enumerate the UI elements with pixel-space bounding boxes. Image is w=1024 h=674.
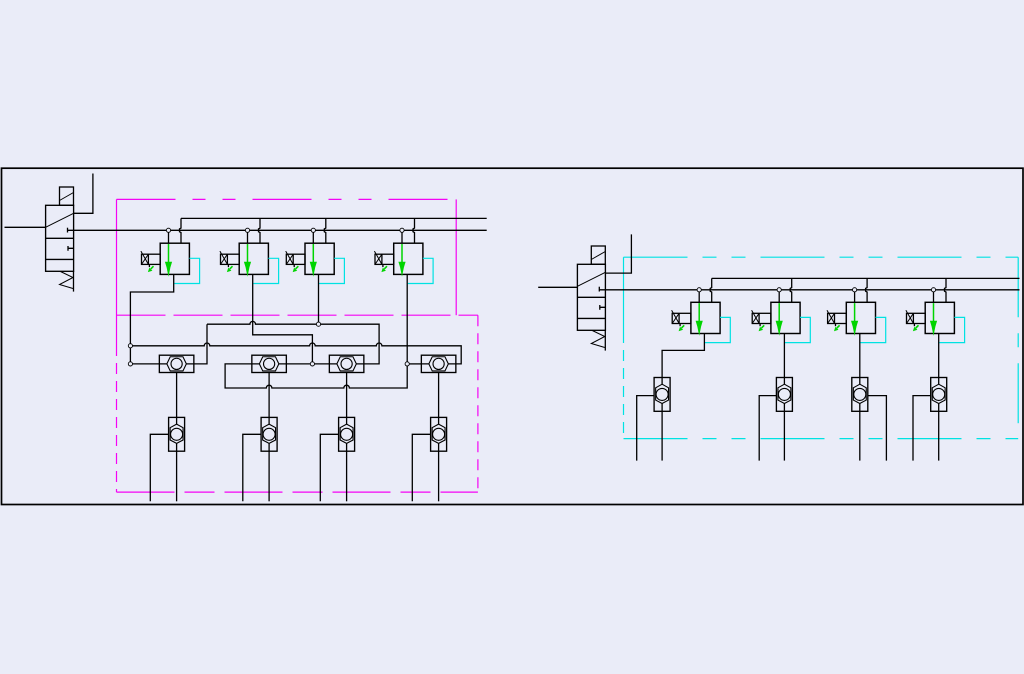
wire: check valve 3 side port down [320, 434, 338, 501]
wire: left supply bus (lower) [68, 229, 487, 231]
junction node N4 [310, 362, 314, 366]
wire: bus drop to valve 6 left port [778, 290, 780, 303]
wire: check valve 4 side port down [412, 434, 430, 501]
main valve DCV2 [577, 246, 605, 351]
wire: check valve 8 side port down [913, 396, 931, 461]
junction node on bus at valve 6 [777, 288, 781, 292]
drawing frame border [2, 168, 1024, 504]
manifold box B right edge [477, 315, 479, 492]
wire: bus drop to valve 4 left port [401, 230, 403, 243]
manifold box C left edge [623, 257, 625, 332]
check valve 4 [431, 417, 447, 451]
wire: valve 4 output down and across to shuttle 2 left [225, 274, 407, 388]
wire: riser bus to valve 4 right port [413, 218, 415, 243]
check valve 7 [852, 378, 868, 412]
manifold box B (dashed, magenta) top edge [117, 314, 478, 316]
wire: line C from node to shuttle 4 right [130, 343, 461, 364]
pilot valve 5 [672, 302, 731, 342]
wire: line B from shuttle 1 branch to shuttle 3 right [207, 321, 379, 363]
junction node on bus at valve 3 [311, 228, 315, 232]
wire: check valve 1 bottom port down [176, 451, 178, 501]
check valve 6 [776, 378, 792, 412]
check valve 1 [169, 417, 185, 451]
wire: riser bus to valve 2 right port [259, 218, 261, 243]
wire: valve 5 output jog to check valve 5 [662, 334, 704, 378]
wire: riser bus to valve 7 right port [866, 278, 868, 302]
wire: check valve 7 side port down [868, 396, 887, 461]
manifold box B bottom edge [117, 491, 478, 493]
shuttle valve 1 [159, 355, 194, 372]
junction node N2 [128, 362, 132, 366]
wire: check valve 5 side port down [637, 396, 654, 461]
pilot valve 1 [141, 243, 200, 283]
junction node N3 [316, 322, 320, 326]
wire: check valve 2 side port down [243, 434, 261, 501]
check valve 2 [261, 417, 277, 451]
junction node on bus at valve 8 [931, 288, 935, 292]
wire: check valve 6 bottom port down [783, 411, 785, 460]
wire: valve 1 output to shuttle 1 left [130, 274, 173, 364]
manifold box A right edge [455, 199, 457, 315]
wire: right supply bus (lower) [599, 289, 1019, 291]
wire: bus drop to valve 8 left port [933, 290, 935, 303]
wire: check valve 8 bottom port down [938, 411, 940, 460]
wire: shuttle 4 bottom to check valve 4 [438, 373, 440, 418]
manifold box C bottom edge [624, 438, 1019, 440]
junction node on bus at valve 7 [853, 288, 857, 292]
manifold box C (dash-dot, cyan) top edge [624, 256, 1019, 258]
wire: valve 2 output to node between shuttles 2-3 [253, 274, 313, 364]
wire: node to shuttle 4 left [407, 363, 421, 365]
wire: supply line into DCV2 [538, 286, 577, 288]
wire: riser bus to valve 3 right port [324, 218, 326, 243]
wire: bus drop to valve 5 left port [698, 290, 700, 303]
wire: DCV2 pilot stub [605, 234, 631, 273]
pilot valve 8 [906, 302, 965, 342]
wire: riser bus to valve 1 right port [180, 218, 182, 243]
wire: bus drop to valve 7 left port [854, 290, 856, 303]
main valve DCV1 [46, 187, 74, 292]
wire: supply line into DCV1 [5, 226, 46, 228]
junction node on bus at valve 2 [245, 228, 249, 232]
wire: shuttle 3 bottom to check valve 3 [346, 373, 348, 418]
pilot valve 7 [827, 302, 886, 342]
pilot valve 3 [286, 243, 345, 283]
wire: check valve 4 bottom port down [438, 451, 440, 501]
manifold box A (dash-dot, magenta) top edge [117, 198, 457, 200]
shuttle valve 4 [421, 355, 456, 372]
wire: check valve 2 bottom port down [268, 451, 270, 501]
check valve 8 [931, 378, 947, 412]
pilot valve 4 [374, 243, 433, 283]
wire: riser bus to valve 8 right port [945, 278, 947, 302]
junction node on bus at valve 4 [400, 228, 404, 232]
wire: shuttle 2 bottom to check valve 2 [268, 373, 270, 418]
wire: riser bus to valve 5 right port [710, 278, 712, 302]
wire: bus drop to valve 3 left port [312, 230, 314, 243]
manifold box A/B shared left edge [116, 199, 118, 345]
junction node N5 [405, 362, 409, 366]
wire: line B drop to shuttle 1 right [194, 324, 207, 364]
manifold box C right edge [1017, 257, 1019, 438]
wire: check valve 3 bottom port down [346, 451, 348, 501]
wire: check valve 1 side port down [150, 434, 168, 501]
wire: bus drop to valve 2 left port [247, 230, 249, 243]
junction node N1 [128, 344, 132, 348]
wire: left pilot bus (upper) [181, 217, 487, 219]
check valve 5 [654, 378, 670, 412]
wire: riser bus to valve 6 right port [790, 278, 792, 302]
wire: shuttle 2 right to shuttle 3 left [286, 363, 329, 365]
pilot valve 2 [220, 243, 279, 283]
wire: valve 6 output to check valve 6 [783, 334, 785, 378]
junction node on bus at valve 1 [166, 228, 170, 232]
wire: check valve 7 bottom port down [859, 411, 861, 460]
junction node on bus at valve 5 [697, 288, 701, 292]
wire: bus drop to valve 1 left port [168, 230, 170, 243]
wire: check valve 5 bottom port down [661, 411, 663, 460]
wire: valve 3 output to line B [318, 274, 320, 324]
pilot valve 6 [752, 302, 811, 342]
shuttle valve 3 [329, 355, 364, 372]
wire: shuttle 1 bottom to check valve 1 [176, 373, 178, 418]
wire: DCV1 pilot stub [74, 174, 93, 214]
wire: valve 7 output to check valve 7 [859, 334, 861, 378]
check valve 3 [339, 417, 355, 451]
wire: valve 8 output to check valve 8 [938, 334, 940, 378]
wire: check valve 6 side port down [759, 396, 776, 461]
shuttle valve 2 [252, 355, 287, 372]
wire: right pilot bus (upper) [712, 277, 1020, 279]
